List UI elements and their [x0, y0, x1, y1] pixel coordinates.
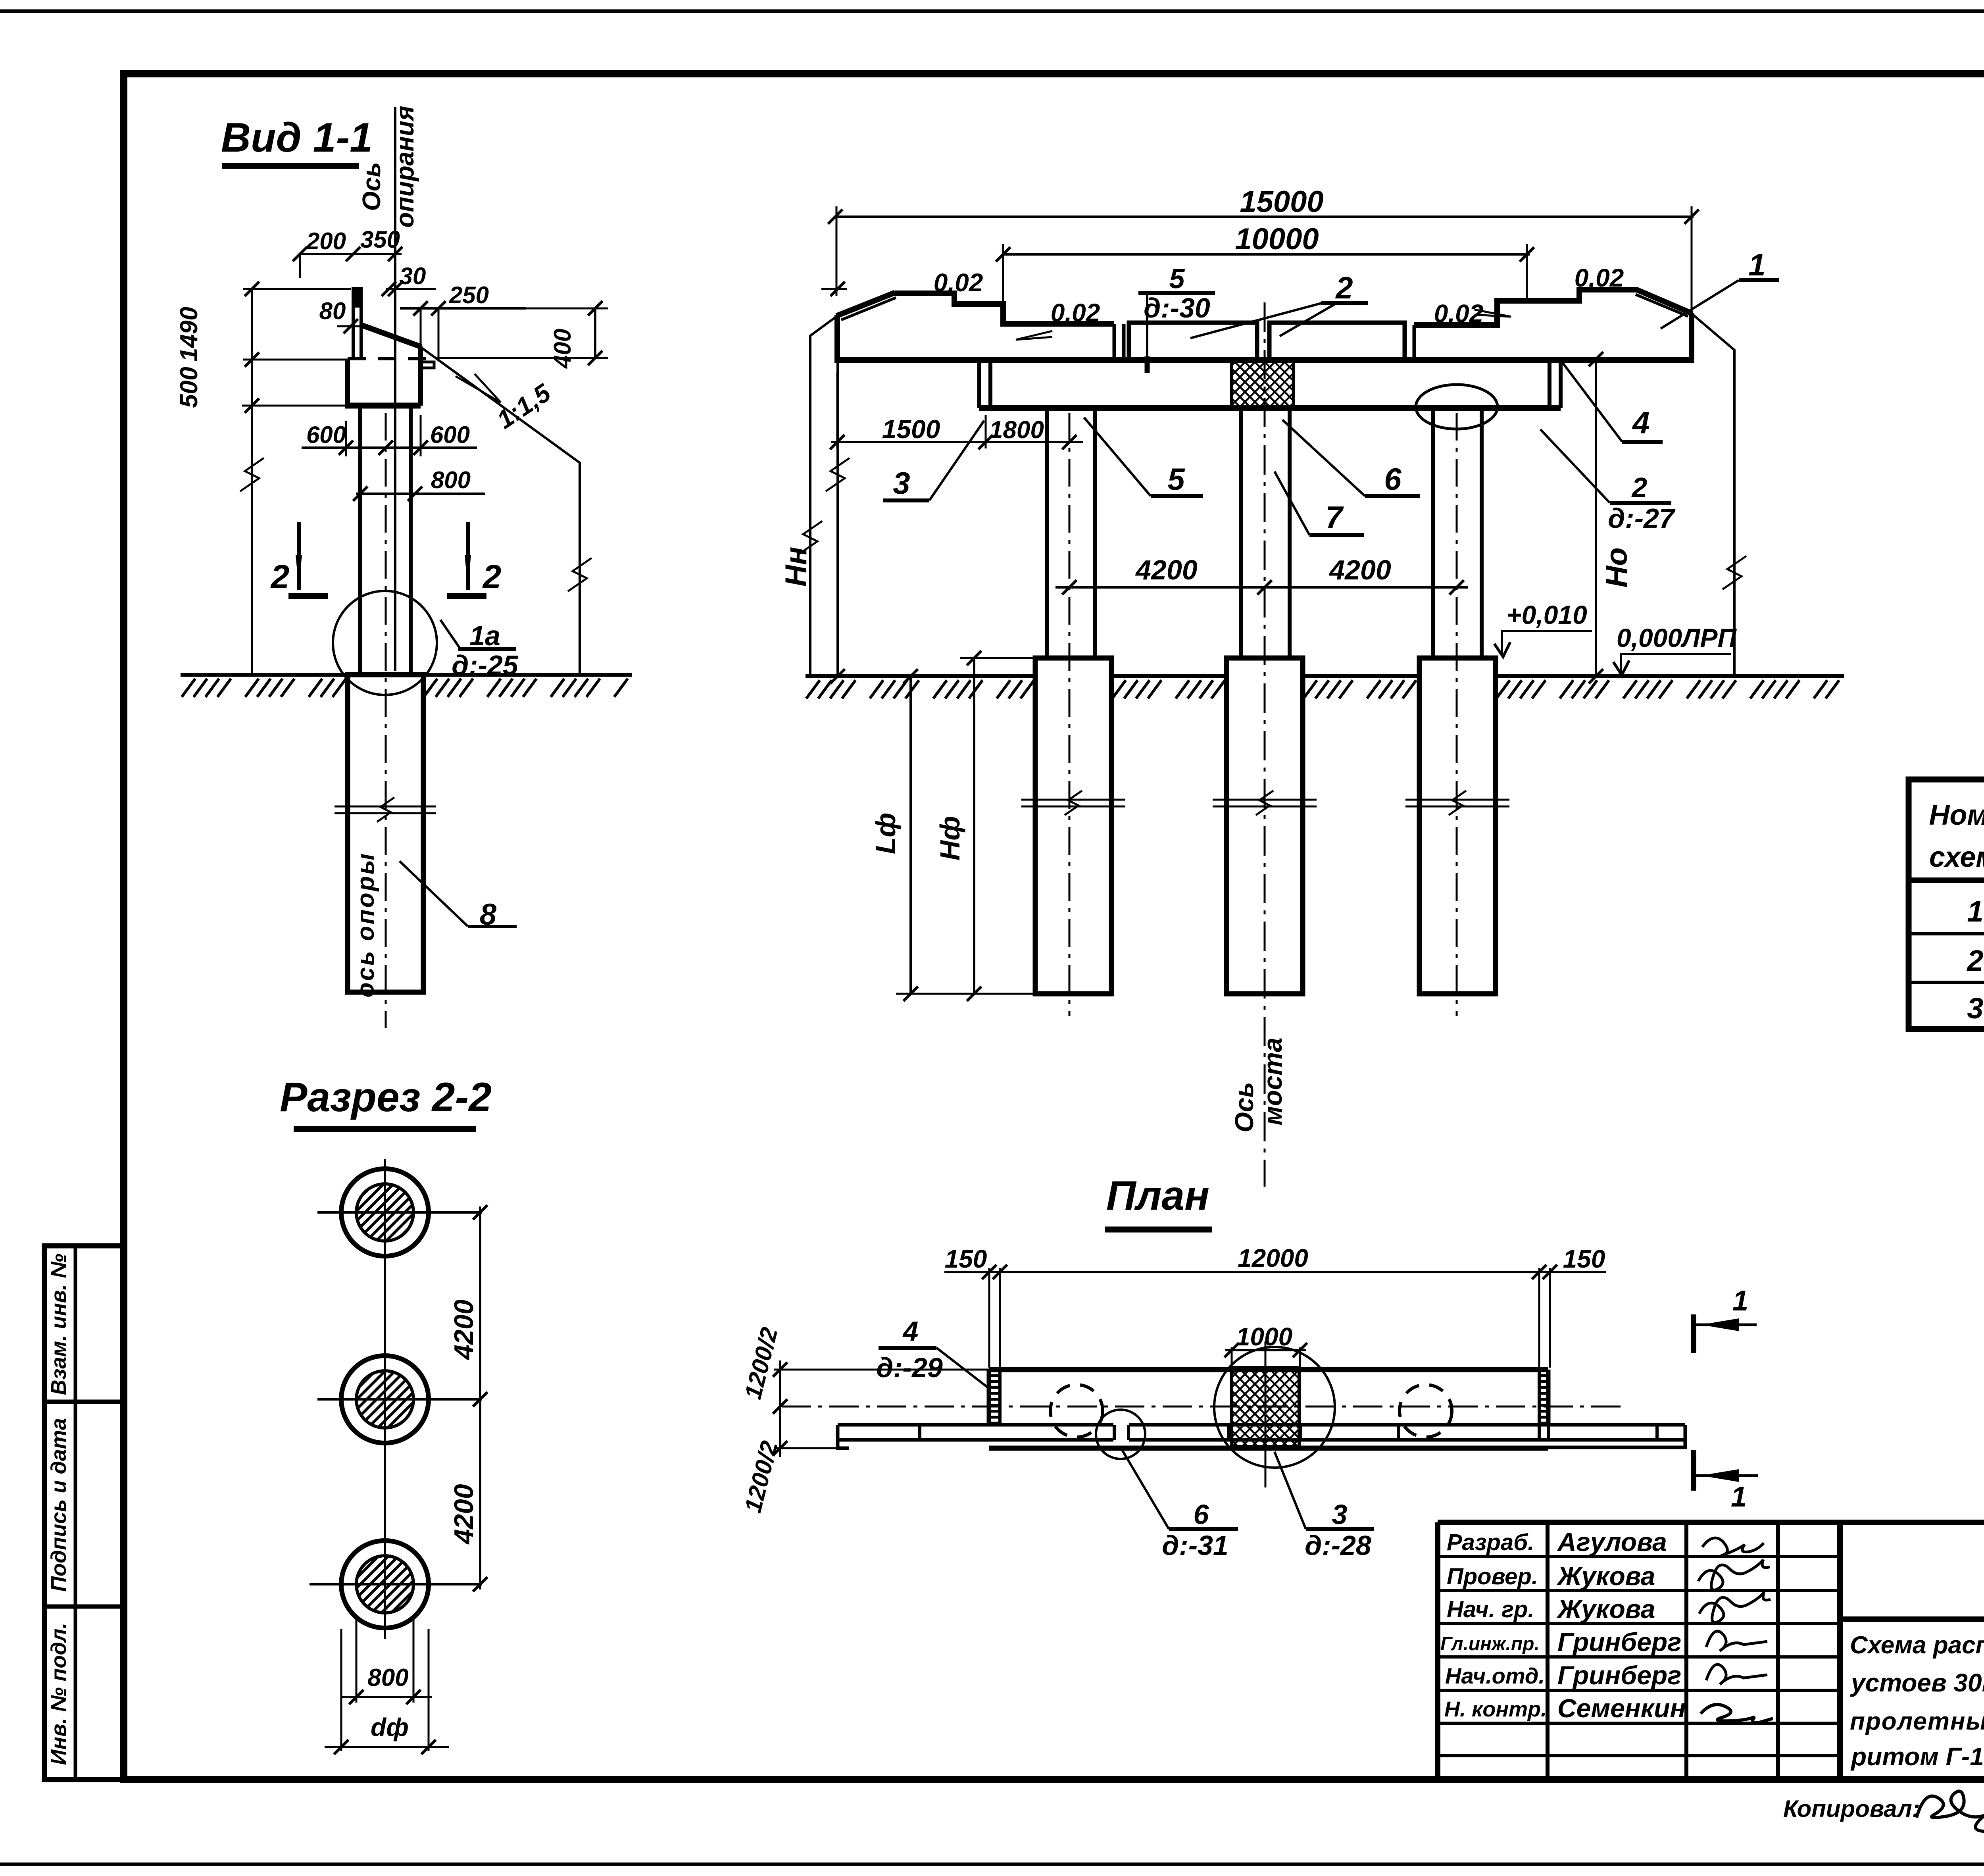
svg-text:д:-31: д:-31: [1162, 1530, 1228, 1561]
plan slab dividers: [918, 1425, 921, 1440]
deck left edge: [834, 315, 840, 360]
dim 200-350 line: [300, 253, 402, 255]
table row divider 2: [1909, 981, 1984, 984]
svg-text:Гл.инж.пр.: Гл.инж.пр.: [1440, 1634, 1540, 1655]
svg-text:250: 250: [449, 282, 489, 308]
svg-text:400: 400: [549, 329, 576, 369]
deck slot b right edge: [1413, 325, 1416, 357]
svg-text:2: 2: [270, 558, 290, 595]
column centerline view11: [385, 413, 387, 1028]
pile 3 elevation: [1419, 658, 1496, 994]
svg-text:3: 3: [1967, 992, 1983, 1025]
shkaf wall right line: [360, 287, 363, 359]
embankment cone right: [1692, 314, 1734, 676]
dim 800 section line: [340, 1696, 432, 1698]
dim 15000 ext right: [1691, 206, 1693, 316]
table outer box: [1909, 779, 1984, 1029]
svg-text:500: 500: [175, 367, 203, 408]
plan slab row top edge: [838, 1423, 1113, 1427]
svg-text:пролетные строения с габа-: пролетные строения с габа-: [1850, 1708, 1984, 1735]
svg-text:4: 4: [902, 1316, 919, 1347]
svg-text:д:-29: д:-29: [876, 1352, 943, 1383]
plan slab row right cap: [1684, 1425, 1687, 1440]
ground hatch elevation: [806, 680, 1034, 698]
svg-text:2: 2: [1335, 270, 1353, 305]
pile section circle 3 centerline: [310, 1583, 482, 1585]
column 1 centerline: [1069, 413, 1071, 1016]
svg-text:5: 5: [1169, 263, 1185, 294]
dim 250 ext lines: [420, 308, 422, 373]
dim df ext lines: [340, 1629, 342, 1751]
ground hatch view 1-1: [182, 679, 346, 697]
beam 3 top: [1269, 323, 1405, 357]
plan dim ext bottom: [774, 1447, 838, 1449]
svg-text:7: 7: [1325, 500, 1344, 535]
svg-text:0,02: 0,02: [1051, 298, 1100, 327]
svg-text:Взам. инв. №: Взам. инв. №: [47, 1254, 71, 1395]
ground line view 1-1 right: [423, 673, 632, 677]
pile break lines view 1-1: [335, 806, 436, 808]
svg-text:600: 600: [430, 421, 470, 448]
svg-text:200: 200: [306, 228, 346, 254]
section 2-2 title underline: [294, 1126, 476, 1132]
svg-text:Семенкин: Семенкин: [1557, 1693, 1686, 1723]
dim 200 ext: [299, 254, 301, 278]
svg-text:Номер: Номер: [1929, 799, 1984, 831]
dim 10000 ext right: [1526, 244, 1528, 303]
left ext line top: [243, 288, 351, 290]
title block col line d: [1837, 1522, 1843, 1780]
deck slot a: [1113, 324, 1116, 357]
plan dim 1000 ext: [1231, 1347, 1233, 1367]
plan dim ext lines 150: [988, 1268, 990, 1368]
plan left step notch: [838, 1440, 849, 1448]
dim 400 ext lines: [492, 308, 608, 310]
page top border line: [0, 10, 1984, 13]
svg-text:150: 150: [1563, 1245, 1605, 1273]
deck bottom line: [834, 357, 1694, 363]
svg-text:Агулова: Агулова: [1557, 1527, 1667, 1557]
plan right step outline: [1528, 1440, 1685, 1447]
detail label 1a leader: [440, 620, 459, 648]
column right line view11: [409, 406, 413, 675]
dim 1500 1800 line: [831, 441, 1083, 443]
left strip outer box: [44, 1246, 123, 1780]
pile section circle 1: [341, 1169, 429, 1256]
pile label 8 leader: [400, 861, 468, 926]
dim 80 tick: [344, 319, 358, 333]
svg-text:д:-28: д:-28: [1305, 1530, 1371, 1561]
dim 1500 ext lines: [836, 373, 838, 448]
deck top right wing: [1414, 290, 1638, 325]
svg-text:Провер.: Провер.: [1447, 1564, 1538, 1589]
plan joint crosshatch block: [1232, 1368, 1299, 1447]
svg-text:8: 8: [480, 898, 497, 931]
plan section mark 1 upper: [1691, 1314, 1696, 1353]
pile section circle 3: [341, 1541, 429, 1628]
svg-text:6: 6: [1384, 462, 1401, 496]
svg-text:1800: 1800: [989, 416, 1044, 444]
left ext line bottom: [242, 405, 348, 407]
svg-text:80: 80: [319, 298, 346, 324]
left strip cell divider 1: [44, 1400, 123, 1404]
svg-text:Жукова: Жукова: [1556, 1561, 1655, 1591]
signature squiggles: [1702, 1538, 1764, 1556]
column 1 elevation: [1045, 408, 1049, 658]
dim 10000 ext left: [1002, 244, 1004, 306]
svg-text:4200: 4200: [449, 1484, 479, 1545]
svg-text:ось опоры: ось опоры: [352, 852, 379, 998]
plan detail circle big: [1214, 1347, 1335, 1468]
svg-text:30: 30: [400, 263, 426, 289]
svg-text:д:-27: д:-27: [1608, 503, 1676, 534]
svg-text:Копировал:: Копировал:: [1783, 1795, 1920, 1822]
section mark 2 left: [297, 522, 301, 590]
cap block right edge: [418, 346, 423, 406]
svg-text:4200: 4200: [1135, 554, 1198, 585]
svg-text:6: 6: [1194, 1499, 1209, 1530]
plan dim line left vertical: [779, 1360, 781, 1457]
svg-text:4200: 4200: [1328, 554, 1391, 585]
section 2-2 vertical centerline: [384, 1159, 386, 1639]
table header bottom line: [1909, 877, 1984, 883]
svg-text:1: 1: [1731, 1481, 1747, 1513]
plan centerline: [782, 1406, 1627, 1408]
svg-text:Нач. гр.: Нач. гр.: [1447, 1597, 1534, 1622]
dim df line: [325, 1746, 449, 1748]
svg-text:ритом Г-10 + 2 × 0,75: ритом Г-10 + 2 × 0,75: [1850, 1742, 1984, 1771]
dim 600-600 line: [302, 446, 477, 449]
plan slab row left cap: [836, 1425, 840, 1448]
slope line 1:1.5 thin: [421, 348, 580, 675]
svg-text:4: 4: [1632, 405, 1649, 440]
plan cap beam bottom edge: [989, 1446, 1548, 1451]
plan dim 1000 line: [1225, 1349, 1306, 1351]
title block col line b: [1684, 1522, 1688, 1780]
detail circle 1a: [333, 591, 437, 695]
svg-text:Нф: Нф: [934, 816, 965, 861]
svg-text:800: 800: [431, 467, 471, 493]
svg-text:350: 350: [360, 226, 400, 253]
pile 1 elevation: [1035, 658, 1111, 994]
plan detail circle small: [1096, 1410, 1145, 1459]
dim Lf line: [909, 676, 912, 994]
left strip label column divider: [74, 1246, 77, 1780]
view 1-1 title underline: [222, 163, 359, 169]
detail ellipse column top: [1416, 385, 1498, 429]
title block col line c: [1776, 1522, 1780, 1780]
svg-text:опирания: опирания: [390, 106, 419, 227]
pile break lines elevation: [1021, 799, 1125, 801]
cap beam right end cap: [1548, 360, 1551, 408]
column 3 elevation: [1431, 408, 1435, 658]
svg-text:Инв. № подл.: Инв. № подл.: [47, 1623, 71, 1765]
dim 30 line: [386, 288, 436, 290]
deck top left wing: [895, 293, 1114, 324]
svg-text:1а: 1а: [469, 620, 500, 651]
svg-text:1490: 1490: [175, 307, 203, 362]
svg-text:800: 800: [367, 1664, 408, 1691]
svg-text:1: 1: [1732, 1285, 1748, 1317]
left ext line mid: [243, 359, 348, 361]
svg-text:10000: 10000: [1235, 222, 1319, 256]
svg-text:2: 2: [482, 558, 502, 595]
bearing nib: [421, 362, 434, 368]
dim 400 vertical line: [594, 308, 596, 358]
svg-text:2: 2: [1966, 944, 1983, 977]
shkaf wall filled top: [352, 287, 363, 308]
deck right edge: [1689, 313, 1694, 360]
svg-text:Lф: Lф: [870, 813, 901, 854]
svg-text:Жукова: Жукова: [1556, 1594, 1655, 1624]
svg-text:0,02: 0,02: [1575, 264, 1624, 292]
svg-text:Схема расположения элементов: Схема расположения элементов: [1850, 1632, 1984, 1659]
dim 800 section ext lines: [356, 1615, 358, 1703]
svg-text:1: 1: [1748, 247, 1765, 282]
svg-text:0,02: 0,02: [934, 268, 983, 297]
dim Lf Hf ext lines: [960, 657, 1034, 659]
svg-text:15000: 15000: [1240, 185, 1323, 219]
svg-text:3: 3: [893, 466, 910, 500]
plan hatched end strip right: [1540, 1374, 1550, 1377]
svg-text:600: 600: [306, 421, 346, 448]
deck right bevel double line: [1637, 290, 1692, 314]
title block row lines small table: [1438, 1555, 1840, 1558]
plan dim ext top: [774, 1369, 989, 1371]
plan cap beam left edge: [987, 1370, 991, 1426]
svg-text:1500: 1500: [882, 414, 940, 444]
svg-text:Вид 1-1: Вид 1-1: [221, 115, 373, 161]
column 2 elevation: [1239, 408, 1243, 658]
joint crosshatch block elevation: [1232, 362, 1294, 407]
bearing pad dashed line: [348, 357, 438, 360]
section 2-2 dim line vertical: [479, 1206, 481, 1589]
pile view 1-1: [348, 675, 423, 992]
svg-text:150: 150: [945, 1245, 987, 1273]
plan cap beam right edge: [1546, 1370, 1551, 1426]
svg-text:Гринберг: Гринберг: [1557, 1627, 1681, 1657]
svg-text:Разраб.: Разраб.: [1447, 1530, 1534, 1555]
dim Ho line: [1595, 359, 1597, 676]
cap block slope thick: [360, 325, 421, 347]
svg-text:1: 1: [1967, 895, 1983, 928]
plan hidden pile circle left: [1050, 1385, 1103, 1437]
dim 800 line: [356, 493, 485, 495]
dim 250 line: [400, 307, 526, 310]
svg-text:dф: dф: [371, 1713, 409, 1741]
pile section circle 2: [341, 1356, 429, 1443]
column 3 centerline: [1456, 413, 1458, 1016]
deck left bevel double line: [836, 292, 895, 316]
plan hatched end strip left: [990, 1374, 1000, 1377]
svg-text:Ось: Ось: [1229, 1082, 1259, 1132]
cap beam left end cap: [977, 360, 981, 408]
left dim line 1490-500: [251, 289, 253, 675]
bearing axis line: [394, 107, 396, 671]
table row divider 1: [1909, 932, 1984, 935]
cap block left edge: [345, 359, 350, 406]
svg-text:План: План: [1106, 1173, 1209, 1219]
dim 15000 ext left: [836, 206, 838, 296]
svg-text:Но: Но: [1600, 547, 1634, 587]
svg-text:Гринберг: Гринберг: [1557, 1661, 1681, 1690]
svg-text:моста: моста: [1258, 1037, 1287, 1125]
beam 2 top: [1129, 323, 1257, 357]
embankment cone left: [810, 316, 837, 676]
pile section circle 2 centerline: [317, 1398, 482, 1401]
plan slab row bottom edge: [838, 1438, 1113, 1442]
svg-text:3: 3: [1332, 1499, 1348, 1530]
page bottom border line: [0, 1863, 1984, 1866]
column left line view11: [358, 406, 362, 675]
shkaf wall left line: [352, 287, 355, 359]
title block doc number divider: [1840, 1616, 1984, 1622]
kopiroval signature: [1917, 1791, 1984, 1831]
ground line view 1-1 left: [181, 673, 348, 677]
plan title underline: [1105, 1227, 1212, 1233]
svg-text:схемы: схемы: [1929, 841, 1984, 873]
ground line elevation: [806, 674, 1035, 678]
title block outer left line: [1435, 1522, 1440, 1780]
svg-text:Разрез 2-2: Разрез 2-2: [280, 1074, 492, 1120]
dim 10000 line: [1003, 253, 1530, 256]
svg-text:устоев 30К 150.Нн-3-ф под: устоев 30К 150.Нн-3-ф под: [1850, 1668, 1984, 1702]
pile 2 elevation: [1227, 658, 1303, 994]
title block col line a: [1546, 1522, 1550, 1780]
svg-text:4200: 4200: [449, 1299, 479, 1360]
dim 15000 line: [835, 215, 1694, 218]
svg-text:12000: 12000: [1238, 1244, 1308, 1272]
plan dim line 150 12000 150: [944, 1271, 1606, 1273]
dim Hn line: [836, 360, 839, 676]
dim 600 ext lines: [345, 421, 347, 456]
svg-text:2: 2: [1631, 472, 1648, 503]
svg-text:д:-30: д:-30: [1144, 292, 1210, 323]
section mark 2 right: [466, 522, 470, 590]
svg-text:Нн: Нн: [779, 547, 813, 587]
left strip cell divider 2: [44, 1605, 123, 1609]
svg-text:0,000ЛРП: 0,000ЛРП: [1617, 623, 1737, 652]
cap beam bottom line: [979, 405, 1561, 411]
svg-text:Н. контр.: Н. контр.: [1444, 1697, 1547, 1721]
dim 4200 4200 elevation line: [1055, 586, 1468, 589]
svg-text:Ось: Ось: [357, 162, 386, 211]
bridge axis centerline: [1264, 302, 1266, 1187]
plan section mark 1 lower: [1691, 1450, 1696, 1491]
svg-text:5: 5: [1167, 462, 1185, 496]
svg-text:Нач.отд.: Нач.отд.: [1445, 1663, 1545, 1688]
dim Hf line: [973, 658, 975, 994]
svg-text:+0,010: +0,010: [1506, 600, 1587, 629]
svg-text:0,02: 0,02: [1434, 299, 1484, 328]
plan cap beam top edge: [989, 1367, 1548, 1372]
pile section circle 1 centerline: [317, 1211, 482, 1214]
slope arrow marker: [456, 374, 501, 402]
cap block bottom edge: [345, 403, 421, 409]
plan hidden pile circle right: [1400, 1385, 1452, 1437]
title block outer top line: [1438, 1520, 1984, 1525]
svg-text:Подпись и дата: Подпись и дата: [47, 1418, 71, 1592]
